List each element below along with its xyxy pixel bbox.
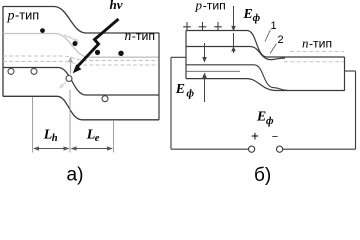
hole 1 <box>8 68 14 74</box>
svg-text:E: E <box>243 6 253 21</box>
dim arrows Lh <box>34 148 69 150</box>
svg-text:2: 2 <box>278 34 284 46</box>
svg-text:e: e <box>95 133 100 144</box>
svg-text:б): б) <box>254 165 271 185</box>
dashed quasi-fermi B <box>3 62 158 66</box>
svg-text:-тип: -тип <box>203 0 226 13</box>
svg-text:E: E <box>256 109 266 124</box>
svg-text:p: p <box>7 8 15 23</box>
svg-text:+: + <box>251 128 259 143</box>
band curve 1 (conduction) <box>186 31 345 58</box>
terminal left <box>249 146 255 152</box>
dim ext line 2 <box>69 90 71 153</box>
n-slab right edge <box>344 57 346 91</box>
dashed fermi n-side lower <box>284 61 344 63</box>
svg-text:1: 1 <box>271 20 277 32</box>
bottom band curve <box>186 79 345 91</box>
label 2 + leader <box>270 44 277 54</box>
gray slope arrow (electron drift) <box>64 35 76 41</box>
wire left vertical <box>170 57 172 149</box>
svg-text:ф: ф <box>266 116 274 127</box>
svg-text:n: n <box>125 28 132 43</box>
svg-text:E: E <box>175 81 185 96</box>
top field arrow up to band 2 <box>233 33 235 53</box>
electron dot 4 <box>118 51 123 56</box>
plus charges row <box>183 22 222 31</box>
left edge <box>2 6 4 96</box>
photon arrow hv <box>78 19 119 67</box>
conduction band top edge <box>3 7 159 34</box>
electron dot 1 <box>40 28 45 33</box>
svg-text:-тип: -тип <box>132 29 155 43</box>
electron dot 2 <box>73 41 78 46</box>
left E_f up arrow <box>202 72 207 78</box>
svg-text:ф: ф <box>187 88 195 99</box>
gray up arrow (hole) <box>70 60 72 74</box>
left E_f down arrow <box>204 43 206 58</box>
dashed quasi-fermi A <box>3 56 158 61</box>
dim ext line 3 <box>113 120 115 153</box>
dashed fermi n-side upper <box>290 51 344 53</box>
hole 2 <box>31 68 37 74</box>
svg-text:-тип: -тип <box>309 37 332 51</box>
wire right vertical <box>355 71 357 149</box>
label 1 + leader <box>265 30 271 42</box>
svg-text:n: n <box>302 36 309 51</box>
svg-text:hν: hν <box>110 0 123 12</box>
wire bottom right <box>283 148 356 150</box>
svg-text:ф: ф <box>253 13 261 24</box>
terminal right <box>277 146 283 152</box>
wire n-contact stub <box>345 70 356 72</box>
band curve 2 (valence) <box>186 47 285 60</box>
faint hole drift arrow <box>61 82 66 87</box>
svg-text:h: h <box>52 133 58 144</box>
fermi middle curve <box>186 65 287 90</box>
svg-text:а): а) <box>67 164 84 185</box>
wire p-contact stub <box>171 56 186 58</box>
dim arrows Le <box>72 148 113 150</box>
hole at junction <box>66 76 72 82</box>
svg-text:p: p <box>195 0 203 13</box>
svg-text:−: − <box>272 131 278 143</box>
Ec light line <box>3 34 159 58</box>
electron dot 3 <box>95 50 100 55</box>
hole n-side <box>102 96 108 102</box>
svg-text:-тип: -тип <box>15 7 39 22</box>
bottom edge <box>3 96 159 120</box>
valence band Ev <box>3 68 159 96</box>
right edge <box>158 33 160 120</box>
p fermi short line <box>186 70 240 72</box>
dim ext line 1 <box>32 97 34 153</box>
top field arrow down to band 1 <box>233 6 235 27</box>
p-slab left edge <box>185 31 187 79</box>
wire bottom left <box>171 148 248 150</box>
